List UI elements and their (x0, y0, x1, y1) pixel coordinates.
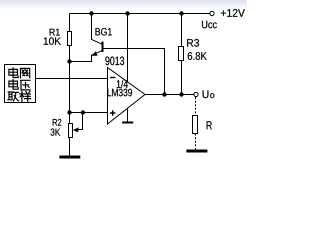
label R3 (187, 39, 199, 47)
wire R2 bottom lead (69, 138, 71, 156)
resistor R1 body (68, 32, 72, 46)
label R (207, 121, 212, 129)
wire box output to minus input (36, 78, 108, 80)
ground for load R (186, 150, 207, 153)
wire R1 top lead (69, 14, 71, 32)
node wiper dot (81, 110, 85, 114)
text 压 row2 (21, 80, 31, 90)
wire base lead and feedback from output (104, 49, 165, 95)
label LM339 (107, 89, 132, 97)
label 1/4 (117, 80, 128, 88)
ground for op-amp (122, 122, 133, 124)
wire dashed to load R (195, 97, 197, 116)
label Uo part o (210, 93, 214, 98)
wire BG1 collector (92, 14, 102, 44)
node R3 output dot (179, 92, 183, 96)
terminal Uo open circle (194, 92, 198, 96)
wire dashed below load R (195, 134, 197, 150)
text 电 row2 (9, 80, 18, 90)
resistor R3 body (179, 47, 184, 61)
label R1 (50, 29, 60, 36)
node emitter junction dot (67, 59, 71, 63)
label +12V (221, 9, 245, 17)
node divider plus-input dot (67, 110, 71, 114)
resistor R load body (193, 116, 198, 134)
op-amp plus input sign (110, 110, 115, 115)
op-amp U1 1/4 LM339 triangle (108, 68, 146, 125)
node R3 rail dot (179, 11, 183, 15)
label 3K (51, 129, 61, 136)
text 样 row3 (20, 91, 31, 101)
op-amp minus input sign (110, 77, 115, 79)
wire R2 wiper (78, 113, 83, 130)
label 9013 (105, 56, 124, 65)
node feedback dot (162, 92, 166, 96)
resistor R2 wiper arrow (73, 127, 79, 132)
transistor BG1 emitter arrow (92, 51, 98, 56)
wire top +12V rail (70, 13, 210, 15)
text 网 row1 (21, 68, 30, 77)
node comparator power rail dot (125, 11, 129, 15)
box grid voltage sampling 电网电压取样 (5, 65, 36, 103)
wire plus input (70, 112, 108, 114)
label R2 (53, 119, 62, 126)
resistor R2 body (69, 124, 73, 138)
text 取 row3 (8, 92, 19, 101)
ground for R2 (59, 156, 80, 159)
terminal +12V open circle (210, 11, 214, 15)
wire R3 bottom lead (181, 61, 183, 95)
wire divider line R1 bottom to R2 top (69, 46, 71, 124)
label Uo part U (203, 90, 209, 98)
wire emitter to divider node (70, 51, 102, 62)
node collector rail dot (89, 11, 93, 15)
label Ucc (202, 21, 217, 29)
wire R3 top lead (181, 14, 183, 47)
wire op-amp ground stub (127, 109, 129, 122)
label 10K (44, 37, 61, 44)
label 6.8K (188, 52, 207, 60)
label BG1 (96, 28, 112, 36)
wire comparator power pin (127, 14, 129, 82)
wire output line (145, 94, 194, 96)
text 电 row1 (9, 68, 18, 78)
transistor BG1 base bar (102, 42, 104, 53)
